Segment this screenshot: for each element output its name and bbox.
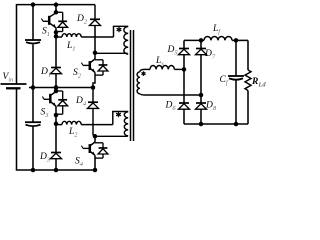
- label D4: [75, 96, 87, 108]
- svg-text:Ls: Ls: [155, 56, 164, 68]
- wire bottom rail: [16, 169, 95, 171]
- svg-text:Lf: Lf: [212, 24, 221, 36]
- label S1: [42, 27, 50, 39]
- diode D8: [196, 103, 207, 109]
- node S1 collector branch: [54, 10, 59, 15]
- svg-text:S2: S2: [73, 68, 82, 80]
- node secondary return junction: [199, 93, 204, 98]
- svg-text:L2: L2: [68, 127, 78, 139]
- wire D3 to bottom rail: [55, 159, 57, 170]
- node D8 bottom junction: [199, 122, 204, 127]
- wire L1 to primary-1 top (jog up): [114, 26, 129, 37]
- transistor S2: [81, 53, 95, 73]
- polarity dot secondary: [142, 71, 146, 76]
- node S1 emitter junction: [54, 30, 59, 35]
- svg-text:D8: D8: [205, 101, 217, 113]
- wire Lf to Cf node: [232, 39, 236, 41]
- diode D7: [196, 49, 207, 55]
- diode DS1 (antiparallel with S1): [56, 12, 68, 31]
- svg-text:D3: D3: [39, 152, 51, 164]
- node L1 tap: [54, 34, 59, 39]
- wire Cf node to R branch: [236, 39, 248, 41]
- svg-text:D5: D5: [167, 45, 179, 57]
- svg-text:S3: S3: [41, 108, 50, 120]
- wire secondary return rail: [146, 94, 202, 96]
- wire S3 emitter down: [55, 106, 57, 124]
- node S3 collector branch: [54, 89, 59, 94]
- wire D6 to bottom rail: [183, 109, 185, 124]
- node S3 emitter junction: [54, 113, 59, 118]
- label L2: [68, 127, 78, 139]
- svg-text:D6: D6: [165, 101, 177, 113]
- diode D4: [88, 88, 99, 109]
- polarity dot primary P1: [117, 27, 122, 32]
- svg-text:D4: D4: [75, 96, 87, 108]
- wire S1 emitter down: [55, 28, 57, 37]
- transistor S4: [81, 136, 95, 156]
- svg-text:S4: S4: [75, 157, 84, 169]
- svg-text:S1: S1: [42, 27, 50, 39]
- label D5: [167, 45, 179, 57]
- node cap1-top: [31, 2, 36, 7]
- transistor S3: [42, 92, 56, 107]
- label D8: [205, 101, 217, 113]
- wire node P1 to primary bottom: [95, 52, 128, 54]
- wire D7 to return junction: [200, 55, 202, 95]
- inductor Lo (secondary series inductor): [145, 66, 185, 70]
- wire S3 collector: [55, 88, 57, 92]
- node S3 collector rail junction: [54, 85, 59, 90]
- node Lf-Cf junction: [234, 38, 239, 43]
- diode D6: [179, 103, 190, 109]
- polarity dot primary P2: [116, 112, 121, 117]
- inductor L1: [56, 34, 114, 37]
- svg-text:D1: D1: [40, 67, 51, 79]
- label D7: [204, 49, 216, 61]
- label D3: [39, 152, 51, 164]
- node S1 collector rail junction: [54, 2, 59, 7]
- svg-text:Vin: Vin: [3, 72, 13, 84]
- wire L2 to primary-2 top (jog up): [113, 112, 128, 125]
- node Cf bottom junction: [234, 122, 239, 127]
- capacitor Cf: [228, 40, 244, 124]
- diode D5: [179, 49, 190, 55]
- wire D4 to node P2 (crosses L2): [93, 108, 95, 135]
- wire R to bottom rail: [247, 91, 249, 125]
- label Lf: [212, 24, 221, 36]
- inductor Lf (output filter): [204, 37, 232, 41]
- node S2 mid-rail junction: [91, 85, 96, 90]
- svg-text:Cf: Cf: [220, 75, 229, 87]
- capacitor Cin1 (top bus cap): [25, 5, 41, 88]
- node Lo-bridge junction: [182, 67, 187, 72]
- label S2: [73, 68, 82, 80]
- transformer core: [131, 30, 134, 141]
- wire D8 to bottom rail: [200, 109, 202, 124]
- node cap1-bottom: [31, 85, 36, 90]
- node D3 bottom-rail junction: [54, 168, 59, 173]
- diode DS4 (antiparallel with S4): [95, 143, 108, 158]
- svg-text:RLd: RLd: [251, 77, 266, 89]
- inductor L2: [56, 121, 113, 124]
- transformer primary winding P2: [124, 112, 128, 136]
- label S4: [75, 157, 84, 169]
- wire bridge left column top: [183, 40, 185, 48]
- voltage source V_in (battery): [1, 84, 27, 88]
- diode D2: [90, 5, 101, 26]
- diode DS3 (antiparallel with S3): [56, 91, 68, 114]
- wire D2 to node P1: [94, 26, 96, 53]
- transformer secondary winding: [137, 69, 145, 95]
- wire left rail upper: [16, 5, 18, 84]
- svg-text:D7: D7: [204, 49, 216, 61]
- transformer primary winding P1: [124, 27, 128, 55]
- wire top rail: [16, 4, 95, 6]
- wire bridge top rail: [184, 39, 204, 41]
- wire S2 emitter to mid rail: [93, 72, 95, 87]
- wire right column top: [200, 40, 202, 48]
- svg-text:L1: L1: [66, 41, 76, 53]
- label V_in: [3, 72, 13, 84]
- label D6: [165, 101, 177, 113]
- node P1 (primary-1 bottom tap): [93, 51, 98, 56]
- node S4 bottom-rail junction: [93, 168, 98, 173]
- label D2: [76, 14, 88, 26]
- capacitor Cin2 (bottom bus cap): [25, 88, 41, 171]
- wire return junction to D8: [200, 95, 202, 103]
- node bridge top-right junction: [199, 38, 204, 43]
- wire node P2 to primary-2 bottom: [95, 135, 128, 137]
- label RLd: [251, 77, 266, 89]
- wire D5 to node Lo: [183, 55, 185, 70]
- wire S4 emitter to bottom rail: [94, 155, 96, 170]
- wire output bottom rail: [184, 123, 248, 125]
- transistor S1: [41, 13, 56, 28]
- label Lo: [155, 56, 164, 68]
- wire left rail lower: [16, 88, 18, 170]
- node L2 tap: [54, 122, 59, 127]
- svg-text:D2: D2: [76, 14, 88, 26]
- wire S1 collector: [55, 5, 57, 13]
- diode D1: [51, 68, 62, 74]
- label D1: [40, 67, 51, 79]
- wire R branch corner down: [247, 40, 249, 70]
- node D1 mid-rail junction: [54, 85, 59, 90]
- node P2 (primary-2 bottom tap): [93, 134, 98, 139]
- wire L1 tap to D1: [55, 36, 57, 67]
- diode DS2 (antiparallel with S2): [95, 60, 108, 75]
- wire mid rail: [29, 87, 95, 89]
- label S3: [41, 108, 50, 120]
- wire D1 to mid rail: [55, 74, 57, 88]
- label Cf: [220, 75, 229, 87]
- label L1: [66, 41, 76, 53]
- node cap2-bottom: [31, 168, 36, 173]
- wire L2 tap to D3: [55, 124, 57, 153]
- diode D3: [51, 153, 62, 159]
- wire left column mid (crosses return rail): [183, 69, 185, 103]
- resistor RLd (load): [245, 70, 251, 91]
